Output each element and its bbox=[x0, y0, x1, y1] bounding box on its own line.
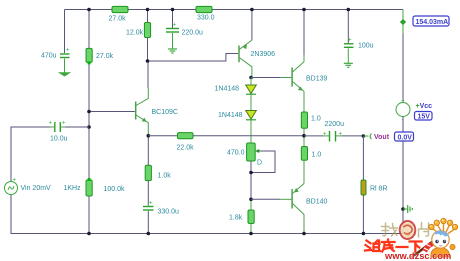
watermark mascot bbox=[412, 218, 458, 257]
hair bbox=[432, 231, 449, 238]
potentiometer 470.0 bbox=[227, 143, 262, 167]
wire 100u to ground bbox=[347, 48, 349, 63]
svg-text:BD139: BD139 bbox=[306, 76, 328, 83]
node bottom rail / 100k bbox=[87, 232, 91, 236]
meter box 0.0V bbox=[395, 132, 414, 141]
right hand bbox=[450, 244, 455, 249]
svg-text:+: + bbox=[401, 99, 405, 105]
wire 12k top lead bbox=[147, 10, 149, 23]
wire left drop to C 470u bbox=[64, 10, 66, 54]
svg-text:+: + bbox=[149, 201, 153, 207]
resistor Rl 8R bbox=[361, 180, 388, 195]
source Vin (sine) bbox=[5, 178, 82, 195]
svg-text:470u: 470u bbox=[41, 53, 57, 60]
node terminal square bbox=[88, 61, 91, 64]
node output mid bbox=[302, 134, 306, 138]
svg-text:12.0k: 12.0k bbox=[126, 30, 144, 37]
svg-text:+: + bbox=[62, 121, 66, 127]
probe Vout bbox=[363, 135, 368, 137]
wire below 470u bbox=[64, 59, 66, 73]
wire mid rail to 2200u bbox=[304, 135, 324, 137]
wire diode chain down across mid rail to pot bbox=[250, 120, 252, 143]
eyes bbox=[435, 240, 438, 243]
watermark 维库一下 (vector strokes) bbox=[365, 240, 422, 252]
wire input left bbox=[11, 127, 50, 182]
wire source bottom bbox=[10, 195, 12, 234]
ground (bar style) below 100u bbox=[344, 63, 353, 67]
resistor 1.0k bbox=[145, 165, 171, 180]
wire 220u top lead bbox=[172, 10, 174, 29]
wire top rail bbox=[65, 9, 404, 11]
svg-text:1N4148: 1N4148 bbox=[218, 112, 243, 119]
node bottom rail / 330u bbox=[147, 232, 151, 236]
watermark faded text 找芯片 (vector strokes) bbox=[382, 223, 429, 238]
resistor 1.0 (lower) bbox=[301, 147, 321, 161]
wire probe to Vcc bbox=[402, 33, 404, 102]
wire between 1.0 and node bbox=[303, 128, 305, 135]
head bbox=[432, 231, 449, 248]
meter box 15V bbox=[415, 112, 433, 121]
probe current marker bbox=[400, 19, 406, 25]
wire 12k bottom to node bbox=[147, 38, 149, 62]
ground (side bar style) at right bbox=[403, 205, 412, 213]
wire pot bottom bbox=[250, 161, 252, 199]
resistor 1.8k bbox=[229, 210, 254, 224]
svg-text:470.0: 470.0 bbox=[227, 150, 245, 157]
svg-text:154.03mA: 154.03mA bbox=[416, 19, 449, 26]
source Vcc bbox=[396, 99, 432, 124]
svg-text:+Vcc: +Vcc bbox=[416, 103, 433, 110]
node top rail / 12k bbox=[146, 8, 150, 12]
capacitor 10.0u bbox=[49, 121, 68, 143]
wire 100k bottom to ground rail bbox=[88, 196, 90, 234]
node base divider bbox=[87, 110, 91, 114]
watermark red seal badge bbox=[400, 221, 416, 239]
svg-text:1.8k: 1.8k bbox=[229, 215, 243, 222]
svg-text:100.0k: 100.0k bbox=[104, 186, 126, 193]
wire right drop with current probe bbox=[402, 10, 404, 34]
resistor 1.0 (upper) bbox=[301, 112, 321, 128]
wire base net: 12k node right then up to 2N3906 base bbox=[148, 54, 239, 62]
wire mid rail 22k to emitter node bbox=[193, 135, 304, 137]
svg-text:Rl 8R: Rl 8R bbox=[370, 186, 388, 193]
wire node to 1.0 lower and down to BD140 emitter bbox=[303, 138, 305, 184]
svg-text:+: + bbox=[348, 38, 352, 44]
wire 2200u to Vout node bbox=[336, 135, 342, 137]
svg-text:Vin 20mV: Vin 20mV bbox=[21, 185, 52, 192]
node BC109C emitter / mid rail left bbox=[147, 134, 151, 138]
svg-text:1.0: 1.0 bbox=[312, 152, 322, 159]
svg-text:0.0V: 0.0V bbox=[398, 134, 413, 141]
node bottom rail / 1.8k bbox=[249, 232, 253, 236]
crown stalks bbox=[433, 224, 454, 234]
wire input left (cap stub) bbox=[50, 126, 55, 128]
node BD140 base bbox=[249, 198, 253, 202]
wire BC109C collector from node bbox=[147, 61, 149, 88]
wire pot wiper loop bbox=[251, 151, 275, 173]
svg-text:+: + bbox=[13, 178, 17, 184]
node 12k bottom / Q1 base / BC109C collector bbox=[146, 59, 150, 63]
pen/brush bbox=[414, 242, 432, 256]
resistor 22.0k (horizontal) bbox=[177, 133, 195, 152]
svg-text:27.0k: 27.0k bbox=[109, 16, 127, 23]
terminal square 100k top bbox=[88, 178, 91, 181]
svg-text:+: + bbox=[49, 121, 53, 127]
transistor Q2 BC109C (NPN) bbox=[136, 98, 149, 135]
svg-text:2N3906: 2N3906 bbox=[251, 51, 276, 58]
svg-text:100u: 100u bbox=[358, 43, 374, 50]
svg-text:Vout: Vout bbox=[374, 134, 390, 141]
wire between diodes bbox=[250, 78, 252, 111]
node input cap junction bbox=[87, 125, 91, 129]
svg-text:220.0u: 220.0u bbox=[182, 30, 204, 37]
resistor 12.0k bbox=[126, 23, 151, 38]
svg-text:D: D bbox=[257, 160, 262, 167]
node right ground bbox=[401, 207, 405, 211]
wire BC109C base bbox=[89, 111, 135, 113]
wire BD139 collector to rail bbox=[303, 10, 305, 56]
wire 220u to ground bbox=[172, 33, 174, 49]
svg-text:1.0k: 1.0k bbox=[158, 173, 172, 180]
wire 1.0k leads bbox=[147, 138, 149, 206]
capacitor 2200u bbox=[323, 121, 344, 142]
svg-text:330.0u: 330.0u bbox=[158, 209, 180, 216]
wire 27k vertical top lead bbox=[88, 10, 90, 49]
diode D2 1N4148 bbox=[218, 111, 256, 120]
capacitor 100u bbox=[344, 38, 374, 50]
wire 27k bottom to base node and cap node bbox=[88, 64, 90, 180]
wire bottom ground rail bbox=[11, 233, 404, 235]
svg-text:+: + bbox=[323, 132, 327, 138]
node bottom rail / BD140 collector bbox=[302, 232, 306, 236]
svg-text:330.0: 330.0 bbox=[197, 15, 215, 22]
svg-text:1N4148: 1N4148 bbox=[215, 86, 240, 93]
body bbox=[431, 248, 450, 258]
crown bulbs bbox=[429, 218, 458, 229]
resistor 330.0 (horizontal, top) bbox=[196, 6, 215, 21]
svg-text:10.0u: 10.0u bbox=[50, 136, 68, 143]
svg-text:BD140: BD140 bbox=[306, 199, 328, 206]
transistor Q3 BD139 (NPN) bbox=[292, 55, 304, 91]
wire 330u bottom bbox=[147, 211, 149, 234]
wire Rl bottom to rail bbox=[362, 195, 364, 234]
node bottom rail / Rl bbox=[362, 232, 366, 236]
svg-text:2200u: 2200u bbox=[325, 121, 345, 128]
diode D1 1N4148 bbox=[215, 85, 257, 94]
wire BD140 base bbox=[251, 198, 280, 200]
resistor 27.0k (horizontal, top) bbox=[109, 6, 129, 22]
svg-text:22.0k: 22.0k bbox=[177, 145, 195, 152]
svg-text:BC109C: BC109C bbox=[152, 109, 178, 116]
svg-text:27.0k: 27.0k bbox=[96, 53, 114, 60]
node: diode chain top / BD139 base bbox=[249, 76, 253, 80]
transistor Q1 2N3906 (PNP) bbox=[239, 10, 252, 78]
capacitor 220.0u bbox=[166, 23, 203, 37]
wire Vout node down to Rl bbox=[362, 136, 364, 180]
node top rail / 100u bbox=[347, 8, 351, 12]
resistor 100.0k bbox=[86, 180, 125, 196]
svg-text:15V: 15V bbox=[418, 114, 431, 121]
ground (arrow style) below 470u bbox=[59, 73, 70, 77]
arm left red striped bbox=[423, 242, 434, 253]
node top rail / BD139 collector bbox=[302, 8, 306, 12]
svg-text:+: + bbox=[66, 48, 70, 54]
node Vout bbox=[362, 134, 366, 138]
svg-text:www.dzsc.com: www.dzsc.com bbox=[384, 251, 451, 261]
svg-text:1.0: 1.0 bbox=[311, 116, 321, 123]
capacitor 330.0u bbox=[143, 201, 179, 216]
wire BD139 base bbox=[251, 77, 281, 79]
wire 100u top lead bbox=[347, 10, 349, 44]
meter box 154.03mA bbox=[413, 16, 449, 26]
wire input net bbox=[60, 126, 65, 128]
capacitor 470u bbox=[41, 48, 70, 60]
node pot bottom bbox=[249, 171, 253, 175]
node top rail / 27k divider bbox=[87, 8, 91, 12]
resistor 27.0k (vertical, left) bbox=[86, 48, 114, 62]
svg-text:+: + bbox=[173, 23, 177, 29]
wire Vcc bottom down to rail bbox=[402, 117, 404, 234]
svg-text:1KHz: 1KHz bbox=[64, 185, 82, 192]
node top rail / Q1 emitter bbox=[250, 8, 254, 12]
ground (bar style) below 220u bbox=[168, 49, 177, 53]
wire BD139 emitter down bbox=[303, 91, 305, 112]
transistor Q4 BD140 (PNP) bbox=[292, 184, 304, 234]
svg-text:+: + bbox=[339, 132, 343, 138]
wire mid rail to 22k bbox=[148, 135, 177, 137]
wire 1.8k leads bbox=[250, 201, 252, 234]
node top rail / 220u bbox=[171, 8, 175, 12]
